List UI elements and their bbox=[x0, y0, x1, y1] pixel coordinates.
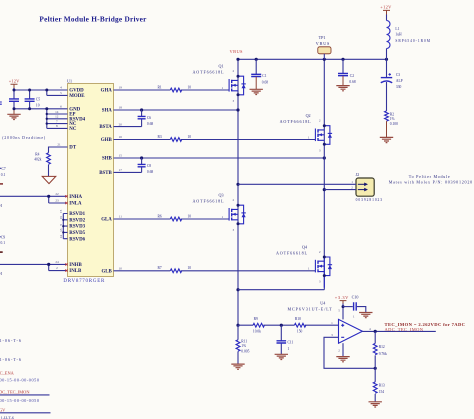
svg-text:AOTF66618L: AOTF66618L bbox=[276, 251, 307, 256]
wire GND rail bbox=[14, 108, 68, 110]
wire +12V rail bbox=[14, 88, 68, 90]
svg-text:1-06-T-6: 1-06-T-6 bbox=[0, 338, 21, 343]
svg-text:24: 24 bbox=[59, 235, 63, 239]
svg-text:R13: R13 bbox=[379, 384, 385, 388]
svg-text:Q1: Q1 bbox=[218, 64, 223, 69]
svg-text:0.68: 0.68 bbox=[262, 80, 268, 84]
svg-text:0.68: 0.68 bbox=[147, 170, 153, 174]
svg-text:1uH: 1uH bbox=[395, 33, 402, 37]
svg-text:13: 13 bbox=[59, 228, 63, 232]
connector J2 0039281023 bbox=[351, 172, 382, 202]
svg-text:INHA: INHA bbox=[69, 195, 82, 200]
resistor R9 10.0k bbox=[253, 317, 265, 333]
svg-text:SHA: SHA bbox=[102, 109, 113, 114]
wire op-amp feedback bbox=[324, 337, 377, 370]
svg-text:150: 150 bbox=[297, 330, 303, 334]
transistor Q2 AOTF66618L bbox=[280, 113, 333, 152]
svg-text:RSVD5: RSVD5 bbox=[69, 231, 85, 236]
svg-text:GVDD: GVDD bbox=[69, 89, 84, 94]
wire INHB/INLB bbox=[0, 263, 68, 271]
resistor R6 10 bbox=[158, 214, 192, 221]
svg-text:EC_ENA: EC_ENA bbox=[0, 370, 15, 375]
svg-text:-H: -H bbox=[0, 203, 2, 208]
wire op-amp pin2 to ground bbox=[342, 343, 344, 356]
svg-text:1-H-T-6: 1-H-T-6 bbox=[1, 415, 15, 419]
wire GLB bbox=[114, 270, 316, 272]
svg-text:R2: R2 bbox=[390, 112, 394, 116]
svg-text:C1: C1 bbox=[262, 74, 266, 78]
ground (under C1) bbox=[250, 89, 263, 94]
resistor R12 9.76k bbox=[373, 331, 387, 368]
svg-text:Q4: Q4 bbox=[302, 244, 307, 249]
node SHB vertical bbox=[238, 59, 326, 289]
svg-text:C6: C6 bbox=[147, 116, 151, 120]
svg-text:INLB: INLB bbox=[69, 269, 82, 274]
svg-text:INHB: INHB bbox=[69, 263, 82, 268]
svg-text:AOTF66618L: AOTF66618L bbox=[193, 199, 224, 204]
svg-text:1-06-T-6: 1-06-T-6 bbox=[0, 357, 21, 362]
svg-text:10: 10 bbox=[188, 85, 192, 89]
svg-text:22: 22 bbox=[55, 192, 59, 196]
svg-text:U4: U4 bbox=[320, 300, 325, 305]
capacitor C10 1 bbox=[343, 295, 366, 319]
svg-text:R11: R11 bbox=[241, 340, 247, 344]
wire MODE drop bbox=[47, 90, 68, 95]
svg-text:16: 16 bbox=[119, 135, 123, 139]
wire INHA/INLA bbox=[0, 195, 68, 203]
svg-text:Peltier Module H-Bridge Driver: Peltier Module H-Bridge Driver bbox=[39, 15, 147, 24]
svg-text:C10: C10 bbox=[352, 295, 359, 300]
svg-text:18: 18 bbox=[119, 106, 123, 110]
svg-text:R12: R12 bbox=[379, 345, 385, 349]
svg-text:R4: R4 bbox=[35, 152, 39, 156]
svg-text:GHA: GHA bbox=[101, 89, 113, 94]
wire DT bbox=[49, 147, 68, 153]
svg-text:MODE: MODE bbox=[69, 94, 85, 99]
ground (left rail) bbox=[7, 109, 20, 120]
capacitor C4 bbox=[9, 90, 19, 109]
power +3.3V (op-amp) bbox=[335, 295, 349, 320]
svg-text:154: 154 bbox=[379, 390, 385, 394]
svg-text:Q2: Q2 bbox=[306, 113, 311, 118]
capacitor C11 1 bbox=[277, 325, 294, 354]
wire GLA bbox=[114, 218, 230, 220]
svg-text:11: 11 bbox=[119, 215, 123, 219]
svg-text:0.005: 0.005 bbox=[241, 349, 249, 353]
svg-text:R1: R1 bbox=[158, 85, 162, 89]
svg-text:10: 10 bbox=[119, 267, 123, 271]
capacitor C5 bbox=[25, 90, 41, 109]
svg-text:U1: U1 bbox=[67, 79, 72, 84]
svg-text:RSVD6: RSVD6 bbox=[69, 237, 85, 242]
svg-text:0.100: 0.100 bbox=[390, 122, 398, 126]
svg-text:10: 10 bbox=[188, 135, 192, 139]
svg-text:10: 10 bbox=[188, 214, 192, 218]
fragment dash 2 (left edge) bbox=[0, 251, 3, 253]
svg-text:C9: C9 bbox=[1, 236, 5, 240]
junction dots left rail bbox=[13, 89, 49, 125]
transistor Q4 AOTF66618L bbox=[276, 244, 332, 287]
svg-text:24: 24 bbox=[55, 260, 59, 264]
power +12V (left) bbox=[9, 79, 20, 89]
transistor Q1 AOTF66618L bbox=[193, 64, 246, 103]
capacitor C3 ALP 330 bbox=[381, 59, 403, 111]
net fragment C7 (left edge) bbox=[0, 167, 6, 177]
svg-text:R3: R3 bbox=[158, 135, 162, 139]
wire GHB bbox=[114, 139, 316, 141]
svg-text:R10: R10 bbox=[295, 317, 301, 321]
svg-text:00-15-00-00-0050: 00-15-00-00-0050 bbox=[0, 398, 39, 403]
ground (under R13) bbox=[369, 402, 382, 407]
svg-text:ALP: ALP bbox=[396, 79, 403, 83]
svg-text:GV: GV bbox=[0, 408, 6, 413]
resistor R3 10 bbox=[158, 135, 192, 142]
resistor R13 154 bbox=[373, 368, 385, 402]
wire ADC_TEC_IMON (bottom left) bbox=[0, 394, 50, 396]
svg-text:AOTF66618L: AOTF66618L bbox=[193, 70, 224, 75]
capacitor C6 0.68 bbox=[114, 110, 154, 127]
svg-text:17: 17 bbox=[119, 168, 123, 172]
svg-text:AOTF66618L: AOTF66618L bbox=[280, 119, 311, 124]
svg-text:C11: C11 bbox=[288, 341, 294, 345]
capacitor C8 0.68 bbox=[114, 158, 154, 174]
svg-text:0.1: 0.1 bbox=[1, 241, 6, 245]
svg-text:BSTA: BSTA bbox=[99, 125, 112, 130]
resistor R11 1% 0.005 bbox=[236, 325, 249, 364]
ground (under op-amp) bbox=[336, 357, 349, 362]
svg-text:R7: R7 bbox=[158, 266, 162, 270]
svg-text:VBUS: VBUS bbox=[230, 49, 244, 54]
svg-text:21: 21 bbox=[57, 143, 61, 147]
test point TP1 VBUS bbox=[316, 35, 331, 59]
ground (right of C10) bbox=[359, 313, 372, 318]
svg-text:20: 20 bbox=[119, 122, 123, 126]
svg-text:1: 1 bbox=[288, 347, 290, 351]
net fragment C9 (left edge) bbox=[0, 236, 5, 246]
svg-text:C8: C8 bbox=[147, 164, 151, 168]
resistor R7 10 bbox=[158, 266, 192, 273]
U1 right pin names bbox=[99, 89, 112, 275]
svg-text:J2: J2 bbox=[356, 172, 360, 177]
ground (under C11) bbox=[275, 354, 288, 359]
svg-text:RSVD2: RSVD2 bbox=[69, 218, 85, 223]
svg-text:0.68: 0.68 bbox=[349, 80, 355, 84]
resistor R2 1% 0.100 bbox=[385, 111, 398, 137]
svg-text:BSTB: BSTB bbox=[99, 171, 112, 176]
svg-text:DC_TEC_IMON: DC_TEC_IMON bbox=[0, 389, 30, 394]
resistor R4 402k bbox=[34, 152, 50, 164]
svg-text:TP1: TP1 bbox=[319, 35, 326, 40]
wire sense node bbox=[238, 324, 339, 327]
no-ERC marks INHB/INLB bbox=[65, 263, 67, 272]
wire SHB bbox=[114, 156, 326, 159]
svg-text:SRP6540-1R0M: SRP6540-1R0M bbox=[395, 39, 430, 43]
svg-text:C7: C7 bbox=[2, 167, 6, 171]
svg-text:0.1: 0.1 bbox=[1, 173, 6, 177]
U1 pin numbers bbox=[55, 86, 122, 271]
wire SHA bbox=[114, 108, 239, 111]
wire 12GV (bottom left) bbox=[0, 412, 51, 414]
svg-text:+12V: +12V bbox=[380, 5, 392, 10]
wire VBUS bus bbox=[236, 58, 388, 61]
IC U1 body DRV8770RGER bbox=[63, 79, 113, 285]
svg-text:GLB: GLB bbox=[101, 269, 112, 274]
svg-text:C3: C3 bbox=[396, 73, 400, 77]
svg-text:10: 10 bbox=[188, 266, 192, 270]
power +12V (top right) bbox=[380, 5, 392, 21]
svg-text:12: 12 bbox=[55, 115, 59, 119]
fragment cap lead marks (left edge) bbox=[0, 102, 2, 104]
svg-text:-H: -H bbox=[0, 271, 2, 276]
svg-text:RSVD1: RSVD1 bbox=[69, 212, 85, 217]
capacitor C2 0.68 bbox=[338, 59, 356, 85]
svg-text:RSVD3: RSVD3 bbox=[69, 225, 85, 230]
svg-text:00-15-00-00-0050: 00-15-00-00-0050 bbox=[0, 378, 39, 383]
svg-text:15: 15 bbox=[59, 209, 63, 213]
wire op-amp output ADC_TEC_IMON bbox=[362, 330, 435, 333]
wire EP/RSVD4/NC tie bbox=[47, 109, 68, 129]
svg-text:GHB: GHB bbox=[101, 138, 113, 143]
svg-text:INLA: INLA bbox=[69, 202, 82, 207]
U1 left pin names bbox=[69, 89, 85, 275]
svg-text:R9: R9 bbox=[254, 317, 258, 321]
svg-text:NC: NC bbox=[69, 127, 77, 132]
svg-text:402k: 402k bbox=[34, 158, 41, 162]
svg-text:0039281023: 0039281023 bbox=[356, 198, 383, 202]
svg-text:+12V: +12V bbox=[9, 79, 20, 84]
svg-text:0.68: 0.68 bbox=[147, 122, 153, 126]
ground (under R11) bbox=[231, 364, 244, 369]
ground (under R2) bbox=[380, 137, 393, 142]
fragment dash (left edge) bbox=[0, 183, 3, 184]
svg-text:SHB: SHB bbox=[102, 157, 113, 162]
ground (under C2) bbox=[336, 86, 349, 91]
svg-text:14: 14 bbox=[55, 110, 59, 114]
RSVD pins tie bracket bbox=[59, 209, 68, 238]
svg-text:To Peltier Module: To Peltier Module bbox=[409, 174, 450, 179]
svg-text:DT: DT bbox=[69, 146, 77, 151]
svg-text:23: 23 bbox=[55, 199, 59, 203]
svg-text:1%: 1% bbox=[390, 117, 395, 121]
wire J2 pin1 to SHA bbox=[238, 183, 356, 185]
svg-text:VBUS: VBUS bbox=[316, 41, 330, 46]
svg-text:DRV8770RGER: DRV8770RGER bbox=[63, 279, 105, 284]
svg-text:C5: C5 bbox=[36, 97, 40, 101]
svg-text:GLA: GLA bbox=[101, 218, 112, 223]
svg-text:ADC_TEC_IMON: ADC_TEC_IMON bbox=[385, 327, 424, 332]
svg-text:+3.3V: +3.3V bbox=[335, 295, 349, 300]
svg-text:15: 15 bbox=[119, 154, 123, 158]
inductor L1 1uH SRP6540-1R0M bbox=[387, 21, 431, 60]
svg-text:(2000ns Deadtime): (2000ns Deadtime) bbox=[2, 135, 46, 140]
svg-text:L1: L1 bbox=[395, 27, 399, 31]
resistor R1 10 bbox=[158, 85, 192, 92]
ground (open triangle, under R4) bbox=[42, 165, 56, 184]
svg-text:330: 330 bbox=[396, 85, 402, 89]
capacitor C1 0.68 bbox=[251, 59, 268, 89]
svg-text:MCP6V31UT-E/LT: MCP6V31UT-E/LT bbox=[288, 307, 333, 312]
no-ERC marks INHA/INLA bbox=[65, 195, 67, 204]
op-amp U4 MCP6V31UT-E/LT bbox=[288, 300, 372, 352]
svg-text:Q3: Q3 bbox=[218, 193, 223, 198]
svg-text:Mates with Molex P/N: 00390120: Mates with Molex P/N: 0039012020 bbox=[389, 180, 473, 185]
svg-text:16: 16 bbox=[59, 216, 63, 220]
svg-text:R6: R6 bbox=[158, 214, 162, 218]
svg-text:19: 19 bbox=[119, 86, 123, 90]
transistor Q3 AOTF66618L bbox=[193, 193, 246, 232]
svg-text:1%: 1% bbox=[241, 344, 246, 348]
svg-text:10: 10 bbox=[36, 104, 40, 108]
wire J2 pin2 to SHB bbox=[324, 189, 356, 191]
svg-text:10.0k: 10.0k bbox=[253, 330, 261, 334]
resistor R10 150 bbox=[294, 317, 305, 333]
svg-text:C2: C2 bbox=[350, 74, 354, 78]
svg-text:9.76k: 9.76k bbox=[379, 352, 387, 356]
wire GHA bbox=[114, 89, 230, 91]
node SHA vertical bbox=[236, 59, 239, 327]
